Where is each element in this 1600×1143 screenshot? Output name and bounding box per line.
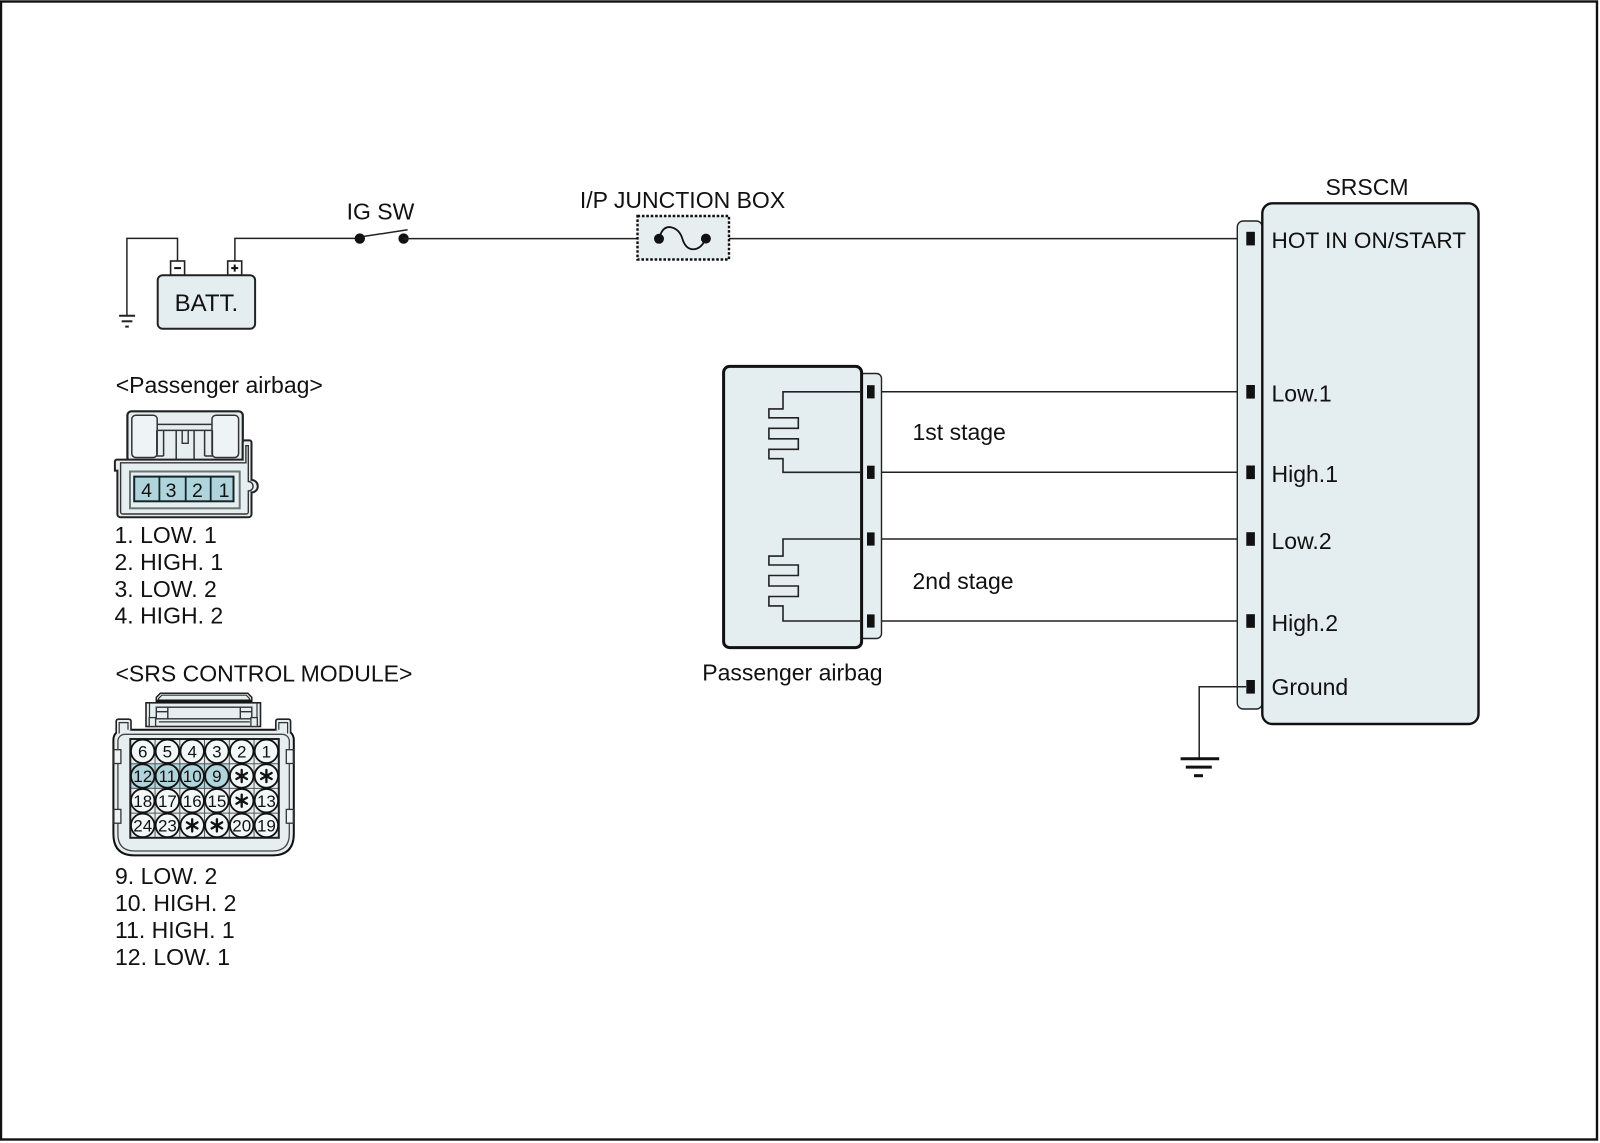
pin 17 r3c2 xyxy=(156,789,180,813)
battery BATT. xyxy=(158,261,255,329)
svg-text:6: 6 xyxy=(138,742,147,761)
cap body tier xyxy=(146,703,261,727)
highlighted cells 12 11 10 9 xyxy=(130,764,229,789)
svg-text:20: 20 xyxy=(232,817,251,836)
squib 1st stage xyxy=(769,392,861,473)
cap foot right xyxy=(251,718,257,727)
body outer xyxy=(113,730,293,856)
svg-text:3: 3 xyxy=(166,480,177,502)
switch IG SW xyxy=(347,199,415,244)
SRS connector pin circles xyxy=(131,740,278,838)
pin asterisk r3c5 xyxy=(230,789,254,813)
cap top bar xyxy=(156,693,252,703)
pin 9 r2c4 xyxy=(205,764,229,788)
hood middle bridge line xyxy=(157,423,212,425)
pin grid xyxy=(130,739,278,838)
svg-text:10: 10 xyxy=(183,767,202,786)
pin numbers 4 3 2 1 xyxy=(141,480,229,502)
svg-text:HOT IN ON/START: HOT IN ON/START xyxy=(1272,228,1467,253)
body inner line xyxy=(118,734,289,851)
svg-text:4. HIGH. 2: 4. HIGH. 2 xyxy=(115,603,224,629)
hood left lobe xyxy=(132,415,157,457)
hood outer xyxy=(127,411,242,462)
svg-text:1st stage: 1st stage xyxy=(913,419,1006,445)
airbag pin 1 xyxy=(867,385,875,398)
wire Low.2 xyxy=(875,538,1246,540)
svg-text:11. HIGH. 1: 11. HIGH. 1 xyxy=(115,917,235,943)
SRSCM pin HOT xyxy=(1246,232,1255,246)
svg-text:9: 9 xyxy=(212,767,221,786)
pin 4 r1c3 xyxy=(180,740,204,764)
svg-text:12: 12 xyxy=(133,767,152,786)
svg-text:4: 4 xyxy=(187,742,196,761)
svg-text:10. HIGH. 2: 10. HIGH. 2 xyxy=(115,890,236,916)
SRS control module connector drawing xyxy=(113,693,293,855)
pin asterisk r4c3 xyxy=(180,814,204,838)
wire High.2 xyxy=(875,620,1246,622)
svg-text:4: 4 xyxy=(141,480,152,502)
module SRSCM box xyxy=(1262,203,1478,724)
body latch window left lower xyxy=(114,809,121,823)
wire SRSCM ground xyxy=(1199,687,1246,758)
body ear right xyxy=(276,719,291,733)
airbag connector drawing xyxy=(115,411,258,517)
SRSCM pin High.2 xyxy=(1246,614,1255,628)
body latch window left upper xyxy=(114,750,121,764)
body ear left xyxy=(116,719,131,733)
pin asterisk r2c6 xyxy=(255,764,279,788)
svg-text:17: 17 xyxy=(158,792,177,811)
cap foot left xyxy=(149,718,155,727)
svg-text:2: 2 xyxy=(192,480,203,502)
wire Low.1 (airbag pin1 to SRSCM) xyxy=(875,391,1246,393)
svg-text:IG SW: IG SW xyxy=(347,199,415,225)
lower shell outer xyxy=(115,440,258,517)
svg-text:5: 5 xyxy=(163,742,172,761)
junction box I/P JUNCTION BOX xyxy=(580,187,785,260)
SRSCM pin labels xyxy=(1272,228,1467,700)
SRSCM pin Low.2 xyxy=(1246,532,1255,546)
pin 15 r3c4 xyxy=(205,789,229,813)
pin 3 r1c4 xyxy=(205,740,229,764)
svg-text:15: 15 xyxy=(207,792,226,811)
cap black band xyxy=(156,700,252,703)
pin 24 r4c1 xyxy=(131,814,155,838)
airbag connector pin list xyxy=(115,522,224,628)
passenger airbag module connector strip xyxy=(859,374,882,639)
pin 23 r4c2 xyxy=(156,814,180,838)
svg-text:<SRS CONTROL MODULE>: <SRS CONTROL MODULE> xyxy=(116,661,413,687)
pin row outer frame xyxy=(130,472,240,509)
hood middle structure xyxy=(157,430,213,464)
cap lower band xyxy=(159,721,250,723)
svg-text:I/P JUNCTION BOX: I/P JUNCTION BOX xyxy=(580,187,785,213)
wire High.1 xyxy=(875,471,1246,473)
pin 18 r3c1 xyxy=(131,789,155,813)
body latch window right lower xyxy=(286,809,293,823)
wire junction box to SRSCM HOT pin xyxy=(729,238,1246,240)
svg-text:<Passenger airbag>: <Passenger airbag> xyxy=(116,372,323,398)
svg-text:High.2: High.2 xyxy=(1272,610,1338,636)
pin row cells xyxy=(134,477,233,502)
pin 2 r1c5 xyxy=(230,740,254,764)
svg-text:High.1: High.1 xyxy=(1272,461,1338,487)
svg-text:Ground: Ground xyxy=(1272,674,1349,700)
svg-text:23: 23 xyxy=(158,817,177,836)
svg-text:1: 1 xyxy=(262,742,271,761)
svg-text:Low.2: Low.2 xyxy=(1272,528,1332,554)
wire battery negative to ground xyxy=(127,238,178,315)
squib 2nd stage xyxy=(769,539,861,621)
SRSCM pin Ground xyxy=(1246,680,1255,694)
svg-text:1. LOW. 1: 1. LOW. 1 xyxy=(115,522,217,548)
pin asterisk r2c5 xyxy=(230,764,254,788)
SRSCM connector strip xyxy=(1237,221,1262,709)
pin 13 r3c6 xyxy=(255,789,279,813)
svg-text:1: 1 xyxy=(219,480,230,502)
pin 5 r1c2 xyxy=(156,740,180,764)
fuse xyxy=(654,227,711,249)
svg-text:2nd stage: 2nd stage xyxy=(913,568,1014,594)
airbag pin 2 xyxy=(867,466,875,479)
airbag pin 4 xyxy=(867,614,875,627)
cap latch left xyxy=(167,707,169,719)
svg-text:18: 18 xyxy=(133,792,152,811)
pin 1 r1c6 xyxy=(255,740,279,764)
hood right lobe xyxy=(212,415,239,457)
ground (battery negative) xyxy=(119,316,135,327)
svg-text:19: 19 xyxy=(257,817,276,836)
svg-text:16: 16 xyxy=(183,792,202,811)
airbag pin 3 xyxy=(867,532,875,545)
cap inner channel xyxy=(156,707,252,719)
wire battery positive to IG SW xyxy=(235,238,360,275)
svg-text:Passenger airbag: Passenger airbag xyxy=(702,660,882,686)
svg-text:9. LOW. 2: 9. LOW. 2 xyxy=(115,863,217,889)
pin 12 r2c1 xyxy=(131,764,155,788)
svg-text:3: 3 xyxy=(212,742,221,761)
pin 10 r2c3 xyxy=(180,764,204,788)
pin 6 r1c1 xyxy=(131,740,155,764)
hood key slot xyxy=(182,431,188,443)
svg-text:2. HIGH. 1: 2. HIGH. 1 xyxy=(115,549,224,575)
body latch window right upper xyxy=(286,750,293,764)
svg-text:11: 11 xyxy=(159,767,177,786)
svg-text:24: 24 xyxy=(133,817,152,836)
SRSCM pin Low.1 xyxy=(1246,385,1255,399)
pin 20 r4c5 xyxy=(230,814,254,838)
svg-text:12. LOW. 1: 12. LOW. 1 xyxy=(115,944,230,970)
lower shell inner line xyxy=(121,446,253,514)
pin 19 r4c6 xyxy=(255,814,279,838)
ground (SRSCM) xyxy=(1181,759,1220,776)
SRS control module pin list xyxy=(115,863,236,970)
pin 11 r2c2 xyxy=(156,764,180,788)
svg-text:3. LOW. 2: 3. LOW. 2 xyxy=(115,576,217,602)
cap latch right xyxy=(239,707,241,719)
svg-text:13: 13 xyxy=(257,792,276,811)
svg-text:BATT.: BATT. xyxy=(175,290,239,317)
svg-text:SRSCM: SRSCM xyxy=(1325,174,1408,200)
passenger airbag module box xyxy=(724,366,862,647)
pin asterisk r4c4 xyxy=(205,814,229,838)
svg-text:2: 2 xyxy=(237,742,246,761)
SRSCM pin High.1 xyxy=(1246,466,1255,480)
wire IG SW to junction box xyxy=(404,238,637,240)
svg-text:Low.1: Low.1 xyxy=(1272,381,1332,407)
pin 16 r3c3 xyxy=(180,789,204,813)
